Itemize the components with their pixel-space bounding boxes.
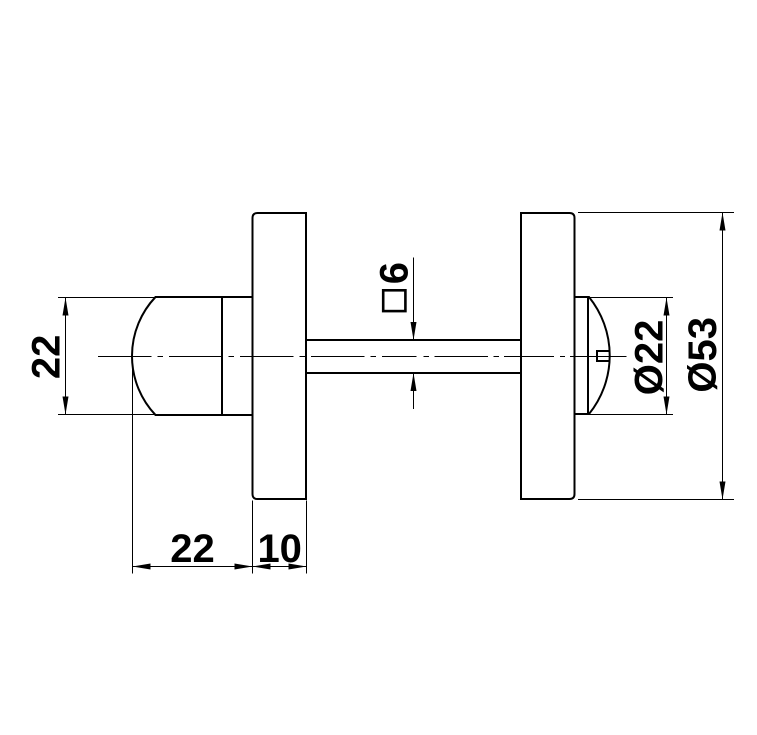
dim 22 bottom arrow left xyxy=(133,564,151,570)
dim bottom extension line middle xyxy=(252,501,254,574)
dim bottom extension line right xyxy=(306,501,308,574)
right rosette plate xyxy=(521,213,575,499)
dim diam22 dimension line xyxy=(666,298,668,415)
dim 6 arrow up xyxy=(411,373,417,391)
dim 22 left extension line top xyxy=(58,297,155,299)
svg-text:Ø53: Ø53 xyxy=(681,317,725,393)
svg-text:6: 6 xyxy=(373,262,417,284)
dim 10 arrow left xyxy=(253,564,271,570)
knob outline xyxy=(132,297,253,415)
dim 6 square symbol xyxy=(383,290,405,311)
dim diam53 arrow up xyxy=(720,213,726,231)
dim diam53 arrow down xyxy=(720,482,726,500)
dim 6 dimension line upper xyxy=(413,258,415,341)
dim diam22 extension line top xyxy=(589,297,673,299)
dim diam22 arrow up xyxy=(664,298,670,316)
dim 22 left arrow down xyxy=(63,397,69,415)
thumbturn flat face xyxy=(587,297,589,414)
svg-text:22: 22 xyxy=(25,335,69,380)
dim diam53 dimension line xyxy=(722,213,724,500)
svg-text:10: 10 xyxy=(257,527,302,571)
dim 22 bottom arrow right xyxy=(235,564,253,570)
dim diam22 arrow down xyxy=(664,397,670,415)
dim 22 left arrow up xyxy=(63,298,69,316)
dim 6 dimension line lower xyxy=(413,373,415,409)
dim 6 arrow down xyxy=(411,322,417,340)
centerline axis xyxy=(98,356,627,358)
dim 10 arrow right xyxy=(289,564,307,570)
dim bottom dimension line xyxy=(133,566,307,568)
dim diam53 extension line bottom xyxy=(578,499,734,501)
svg-text:22: 22 xyxy=(170,527,215,571)
dim 22 left extension line bottom xyxy=(58,414,157,416)
square spindle bottom edge xyxy=(306,372,521,374)
dim 22 left dimension line xyxy=(65,298,67,415)
dim bottom extension line left xyxy=(132,357,134,574)
thumbturn outline xyxy=(575,297,610,414)
dim diam22 extension line bottom xyxy=(589,414,673,416)
thumbturn coin slot xyxy=(597,351,609,361)
square spindle top edge xyxy=(306,339,521,341)
svg-text:Ø22: Ø22 xyxy=(627,320,671,396)
dim diam53 extension line top xyxy=(578,212,734,214)
knob neck line xyxy=(221,297,223,415)
left rosette plate xyxy=(253,213,307,499)
